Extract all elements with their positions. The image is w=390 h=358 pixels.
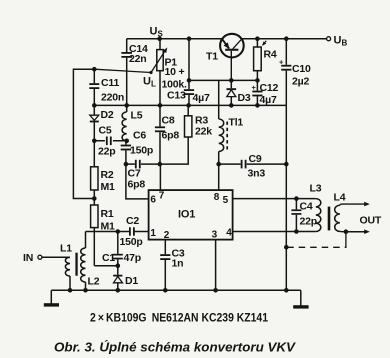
svg-text:L1: L1 (60, 243, 72, 255)
label R1 (101, 208, 116, 233)
label L1 (60, 243, 72, 255)
svg-text:6p8: 6p8 (128, 179, 146, 191)
node U_S label (150, 26, 164, 39)
wire: C7 row (126, 163, 160, 165)
svg-text:47p: 47p (124, 252, 142, 264)
transformer core L3/L4 (328, 207, 331, 231)
ground (left) (44, 290, 59, 306)
inductor L4 (335, 204, 365, 232)
label L4 (334, 192, 346, 204)
svg-text:C2: C2 (126, 215, 139, 227)
label C1 (102, 252, 141, 264)
label IN (23, 252, 33, 264)
svg-text:2 × KB109G NE612AN KC239 KZ141: 2 × KB109G NE612AN KC239 KZ141 (90, 311, 268, 325)
label D3 (238, 92, 251, 104)
svg-text:220n: 220n (101, 92, 124, 104)
pin 3 label (212, 230, 218, 241)
svg-text:22k: 22k (195, 126, 212, 138)
svg-text:R1: R1 (101, 208, 114, 220)
label C8 (162, 115, 180, 142)
label C12 (260, 82, 279, 106)
svg-text:D2: D2 (101, 109, 114, 121)
label R4 with select arrow (262, 41, 277, 61)
label P1 (162, 57, 188, 91)
svg-text:4µ7: 4µ7 (193, 92, 210, 104)
varicap diode D1 (113, 266, 122, 291)
wire: pin8 drop (218, 164, 220, 190)
svg-text:L5: L5 (131, 110, 143, 122)
inductor L3 (316, 199, 321, 232)
capacitor C5 (105, 136, 113, 146)
svg-text:IN: IN (23, 252, 33, 264)
svg-text:C13: C13 (167, 90, 186, 102)
svg-text:3n3: 3n3 (248, 168, 266, 180)
inductor L5 (122, 105, 127, 141)
label IO1 (178, 209, 195, 221)
label L5 (131, 110, 143, 122)
transistor T1 (220, 34, 244, 81)
pin 4 label (226, 228, 232, 239)
capacitor C1 (113, 232, 123, 266)
capacitor C4 (291, 199, 301, 232)
wire: pin 5 row (233, 198, 316, 200)
svg-text:10 +: 10 + (165, 66, 185, 78)
wire: pin 3 drop (215, 240, 217, 291)
pin 7 label (159, 191, 165, 202)
svg-text:C9: C9 (249, 153, 262, 165)
svg-text:C11: C11 (101, 77, 119, 89)
svg-text:2µ2: 2µ2 (292, 76, 309, 88)
capacitor C6 (121, 141, 131, 164)
pin 8 label (214, 192, 220, 203)
label C9 (248, 153, 266, 180)
wire: ground vertical from C10 corner (285, 105, 287, 290)
svg-text:L4: L4 (334, 192, 346, 204)
svg-text:C5: C5 (99, 125, 112, 137)
svg-text:Obr. 3. Úplné schéma konvertor: Obr. 3. Úplné schéma konvertoru VKV (54, 340, 297, 355)
svg-text:M1: M1 (101, 181, 116, 193)
wire: pin6 drop (126, 164, 149, 199)
svg-text:C10: C10 (292, 63, 311, 75)
svg-text:2: 2 (164, 230, 170, 241)
choke Tl1 (219, 119, 228, 164)
svg-text:3: 3 (212, 230, 218, 241)
svg-text:4: 4 (226, 228, 232, 239)
label L3 (310, 183, 322, 195)
label Tl1 (229, 117, 244, 129)
pin 5 label (223, 195, 229, 206)
wire: ground rail (51, 289, 300, 291)
svg-text:M1: M1 (101, 221, 116, 233)
label R3 (195, 115, 212, 138)
wire: C9 leads (219, 163, 287, 165)
label C13 (167, 90, 210, 105)
svg-text:8: 8 (214, 192, 220, 203)
ground (right) (293, 290, 308, 308)
inductor L1 (65, 257, 70, 290)
label T1 (206, 51, 218, 63)
wire: pin 7 (159, 164, 161, 190)
resistor R1 (91, 199, 98, 266)
svg-text:UL: UL (143, 76, 156, 89)
svg-text:D1: D1 (125, 275, 138, 287)
resistor R2 (91, 141, 98, 199)
svg-text:6: 6 (150, 195, 156, 206)
svg-text:C1: C1 (102, 252, 115, 264)
IC IO1 box (149, 190, 233, 240)
capacitor C9 (240, 159, 250, 170)
svg-text:5: 5 (223, 195, 229, 206)
terminal IN (38, 255, 42, 259)
svg-text:D3: D3 (238, 92, 251, 104)
svg-text:C12: C12 (260, 82, 279, 94)
capacitor C7 (134, 159, 143, 169)
svg-text:1: 1 (150, 228, 156, 239)
capacitor C13 (184, 39, 194, 106)
svg-text:C6: C6 (133, 130, 146, 142)
label C10 (292, 63, 311, 88)
wire: IN lead (42, 256, 70, 258)
label C2 (120, 215, 143, 248)
capacitor C2 (129, 227, 135, 235)
label C4 (300, 201, 318, 228)
zener diode D3 (227, 80, 237, 105)
wire: pin 2 drop (164, 240, 166, 255)
svg-text:L3: L3 (310, 183, 322, 195)
label C3 (172, 248, 185, 270)
svg-text:Tl1: Tl1 (229, 117, 244, 129)
label L2 (88, 276, 100, 288)
capacitor C14 (121, 39, 132, 106)
svg-text:22p: 22p (300, 216, 318, 228)
svg-text:T1: T1 (206, 51, 218, 63)
resistor R4 (254, 39, 262, 81)
inductor L2 (81, 232, 86, 291)
label C7 (128, 168, 146, 191)
wire: C5 row (94, 140, 126, 142)
resistor R3 (160, 105, 192, 164)
svg-text:150p: 150p (120, 236, 143, 248)
node U_B label (334, 35, 348, 48)
wire: left tuning rail (U_L) (73, 69, 94, 198)
svg-text:R2: R2 (101, 169, 114, 181)
label D2 (101, 109, 114, 121)
label R2 (101, 169, 116, 193)
svg-text:22p: 22p (98, 146, 116, 158)
parts list text (90, 311, 268, 325)
label C11 (101, 77, 124, 104)
node U_L label (143, 76, 156, 89)
svg-text:C4: C4 (300, 201, 313, 213)
transformer core L1/L2 (75, 253, 77, 276)
pin 6 label (150, 195, 156, 206)
label C6 (130, 130, 153, 157)
potentiometer P1 (149, 39, 167, 106)
wire: P1 wiper line to U_L rail (94, 69, 151, 72)
svg-text:IO1: IO1 (178, 209, 195, 221)
svg-text:C8: C8 (162, 115, 175, 127)
svg-text:OUT: OUT (360, 215, 382, 227)
label C14 (129, 43, 148, 65)
svg-text:150p: 150p (130, 145, 153, 157)
svg-text:R4: R4 (264, 49, 277, 61)
wire: U_S top supply line (left segment) (127, 38, 223, 40)
capacitor C10 (279, 39, 291, 106)
capacitor C11 (89, 69, 99, 105)
svg-text:7: 7 (159, 191, 165, 202)
svg-text:UB: UB (334, 35, 348, 48)
pin 2 label (164, 230, 170, 241)
svg-text:1n: 1n (172, 258, 184, 270)
pin 1 label (150, 228, 156, 239)
wire: Tl1 feed corner (218, 80, 220, 119)
svg-text:6p8: 6p8 (162, 130, 180, 142)
wire: OUT top lead arrow (364, 202, 370, 207)
wire: T1 base line (189, 79, 257, 81)
label OUT (360, 215, 382, 227)
wire: pin 4 row (233, 231, 316, 233)
wire: OUT bottom lead (346, 229, 370, 234)
svg-text:4µ7: 4µ7 (260, 94, 277, 106)
capacitor C12 (252, 80, 263, 105)
caption text (54, 340, 297, 355)
capacitor C3 (160, 254, 170, 290)
wire: pin1 row (86, 231, 149, 233)
svg-text:L2: L2 (88, 276, 100, 288)
svg-text:US: US (150, 26, 164, 39)
capacitor C8 (155, 105, 165, 164)
label C5 (98, 125, 116, 158)
wire: mid supply rail (94, 104, 286, 106)
wire: L4 shield stub (345, 232, 347, 242)
svg-text:22n: 22n (129, 53, 147, 65)
label D1 (125, 275, 138, 287)
wire: shield dashed line (286, 242, 346, 247)
terminal U_B (327, 37, 331, 41)
wire: U_B top supply line (right segment) (241, 38, 326, 40)
wire: R1 to D1 junction (94, 265, 118, 267)
varicap diode D2 (90, 105, 99, 140)
